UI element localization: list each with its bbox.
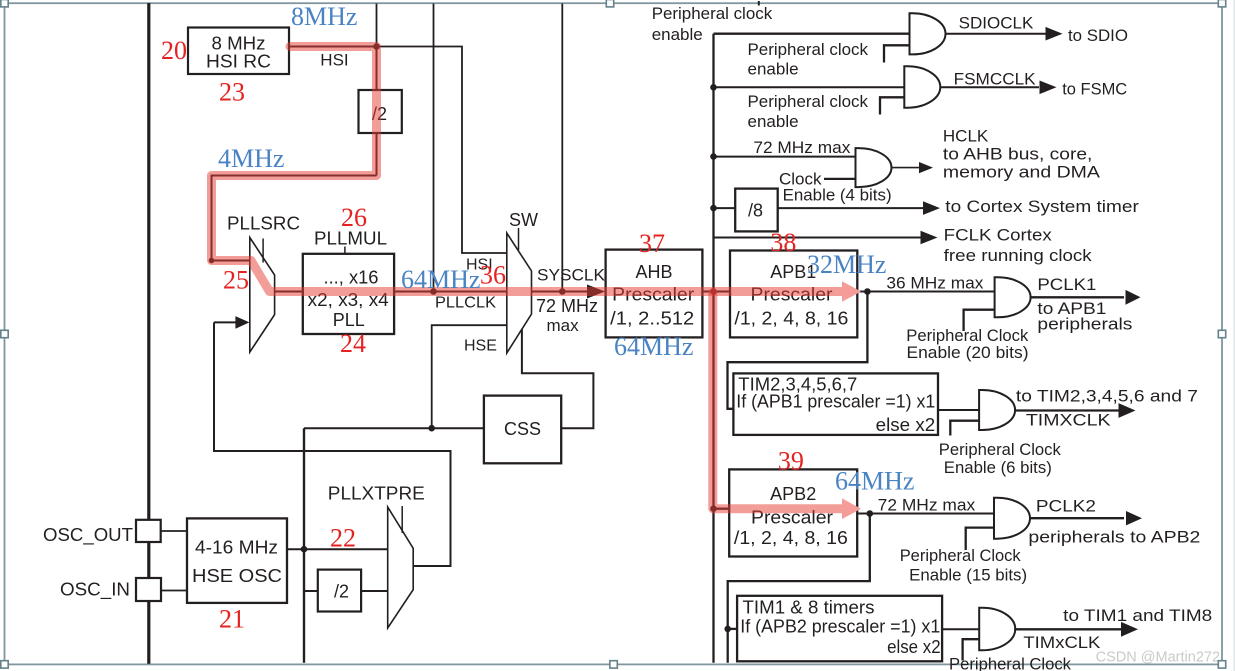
node: HCLK gate branch (710, 153, 717, 160)
svg-text:72 MHz: 72 MHz (536, 296, 598, 316)
svg-text:OSC_IN: OSC_IN (60, 580, 130, 601)
wire: cropped stub at top edge (758, 1, 760, 6)
label: PLLMUL with tick (344, 247, 346, 254)
block: 8 MHz HSI RC oscillator (188, 28, 289, 75)
wire: bus top branch to SDIO gate (714, 33, 910, 35)
wire: PLLXTPRE feed into PLLSRC mux with arrowhead (214, 321, 237, 323)
svg-text:23: 23 (219, 78, 245, 107)
svg-text:24: 24 (340, 329, 366, 358)
svg-text:Enable (20 bits): Enable (20 bits) (907, 343, 1029, 362)
wire: TIMXCLK output arrow (1014, 409, 1119, 411)
svg-text:TIM1 & 8 timers: TIM1 & 8 timers (743, 598, 875, 618)
svg-text:APB2: APB2 (770, 484, 816, 504)
highlight arrowhead into APB2 (842, 498, 861, 519)
svg-text:4-16 MHz: 4-16 MHz (195, 538, 278, 558)
node: /8 branch (710, 205, 717, 212)
enable stub into FSMC gate (880, 97, 904, 114)
wire: APB1 output to PCLK1 gate (857, 291, 994, 293)
svg-text:/8: /8 (748, 201, 763, 221)
wire: SW mux bottom to CSS (522, 329, 594, 428)
svg-text:PLLSRC: PLLSRC (227, 214, 300, 234)
svg-text:TIMxCLK: TIMxCLK (1023, 633, 1101, 652)
enable stub into PCLK2 gate (966, 528, 994, 550)
svg-text:8MHz: 8MHz (291, 2, 357, 31)
mux PLLSRC (250, 238, 275, 353)
svg-text:64MHz: 64MHz (835, 467, 914, 496)
gate: FSMC clock AND gate (904, 66, 940, 107)
enable stub into SDIO gate (884, 45, 910, 62)
wire: PLLCLK branch up to top edge (433, 4, 435, 292)
svg-text:TIMXCLK: TIMXCLK (1026, 411, 1111, 430)
svg-text:Enable (15 bits): Enable (15 bits) (909, 566, 1027, 585)
enable stub into TIM1 gate (963, 639, 980, 660)
svg-text:39: 39 (778, 447, 804, 476)
svg-text:to FSMC: to FSMC (1062, 80, 1127, 99)
node: FSMC branch (710, 84, 717, 91)
highlight: HCLK branch down to APB2 (713, 293, 843, 509)
svg-text:Peripheral Clock: Peripheral Clock (949, 655, 1071, 671)
svg-text:PLLXTPRE: PLLXTPRE (328, 484, 425, 504)
svg-text:else x2: else x2 (876, 415, 936, 435)
wire: FCLK Cortex (714, 237, 922, 239)
svg-text:Peripheral clock: Peripheral clock (748, 40, 869, 59)
wire: HSI to SW mux input (377, 47, 507, 254)
wire: FSMCCLK output (941, 86, 1040, 88)
wire: /8 to Cortex system timer (778, 207, 923, 209)
svg-text:36: 36 (480, 261, 506, 290)
svg-text:/1, 2..512: /1, 2..512 (610, 309, 694, 329)
wire: AHB to APB1 (702, 291, 730, 293)
svg-text:26: 26 (341, 203, 367, 232)
wire: HCLK output arrow (892, 167, 920, 169)
svg-text:max: max (547, 316, 580, 335)
wire: tap into /2 (304, 590, 318, 592)
svg-text:memory and DMA: memory and DMA (943, 163, 1101, 182)
gate: HCLK AND gate (856, 148, 892, 187)
svg-text:SYSCLK: SYSCLK (537, 266, 606, 285)
svg-text:PCLK1: PCLK1 (1037, 275, 1096, 294)
wire: stub from top edge to HSI junction (376, 4, 378, 47)
wire: TIM2 block to gate (938, 409, 979, 411)
wire: SDIOCLK output (945, 33, 1047, 35)
wire: HSI junction down through /2 divider (376, 47, 378, 176)
svg-text:FSMCCLK: FSMCCLK (954, 70, 1037, 89)
block: CSS clock security system (484, 396, 561, 464)
node: PLLCLK junction (430, 288, 437, 295)
svg-text:peripherals: peripherals (1037, 315, 1132, 334)
block: AHB Prescaler (606, 250, 703, 338)
block: PLL multiplier (303, 254, 394, 334)
wire: APB1 junction down to TIM2 block (728, 292, 868, 409)
svg-text:If (APB2 prescaler =1) x1: If (APB2 prescaler =1) x1 (740, 617, 940, 637)
arrow into AHB prescaler (587, 285, 605, 299)
svg-text:HSI RC: HSI RC (206, 52, 271, 72)
gate: PCLK1 AND gate (995, 277, 1031, 317)
svg-text:enable: enable (652, 25, 703, 44)
svg-text:FCLK Cortex: FCLK Cortex (944, 226, 1053, 245)
svg-text:/1, 2, 4, 8, 16: /1, 2, 4, 8, 16 (734, 528, 848, 548)
node: HCLK junction on bus (710, 288, 717, 295)
wire: PCLK2 output arrow (1029, 517, 1124, 519)
wire: TIMxCLK output arrow (1014, 628, 1121, 630)
wire: HSI/2 elbow to PLLSRC mux (212, 176, 377, 261)
svg-text:enable: enable (748, 60, 799, 79)
wire: HSE vertical rail down to bottom edge (303, 428, 305, 663)
svg-text:HSE: HSE (464, 338, 497, 355)
node: HSI junction (373, 43, 380, 50)
pin pad: OSC_OUT (136, 520, 161, 542)
wire: bus to FSMC gate (714, 86, 905, 88)
gate: TIMXCLK APB1 AND gate (979, 390, 1015, 430)
svg-text:SW: SW (509, 210, 538, 230)
svg-text:free running clock: free running clock (944, 246, 1093, 265)
wire: HCLK bus vertical (712, 34, 714, 663)
highlight: clock path HSI to PLL to SYSCLK to APB1 (212, 47, 844, 292)
wire: APB2 junction down to TIM1 block (728, 514, 870, 663)
svg-text:HSE OSC: HSE OSC (192, 566, 282, 586)
wire: HSE OSC output (287, 548, 388, 550)
block: APB2 Prescaler (729, 469, 857, 556)
wire: TIM1 block to gate (942, 628, 979, 630)
wire: APB2 output to PCLK2 gate (857, 513, 994, 515)
svg-text:22: 22 (330, 524, 356, 553)
divider /8 Cortex systick (735, 189, 778, 232)
gate: TIMxCLK APB2 AND gate (979, 608, 1015, 651)
enable stub into TIMX gate (950, 421, 979, 436)
svg-text:Peripheral Clock: Peripheral Clock (939, 440, 1061, 459)
wire: into TIM1 block (728, 628, 737, 630)
wire: PLLSRC mux to PLL (275, 291, 303, 293)
node: SYSCLK junction (559, 288, 566, 295)
wire: HSI output from HSI RC (289, 46, 377, 48)
svg-text:/2: /2 (334, 582, 349, 602)
wire: HSE up to SW mux input (432, 325, 507, 428)
svg-text:to Cortex System timer: to Cortex System timer (945, 197, 1139, 216)
svg-text:Peripheral clock: Peripheral clock (748, 92, 869, 111)
highlight arrowhead into APB1 (842, 281, 861, 302)
svg-text:..., x16: ..., x16 (324, 268, 379, 288)
svg-text:to TIM1 and TIM8: to TIM1 and TIM8 (1063, 606, 1212, 625)
wire: bus to HCLK gate, 72 MHz max (714, 156, 856, 158)
svg-text:Enable (6 bits): Enable (6 bits) (944, 458, 1052, 477)
wire: PCLK1 output arrow (1030, 296, 1124, 298)
node: APB2 corner on bus (710, 505, 717, 512)
gate: SDIO clock AND gate (910, 13, 946, 54)
wire: SYSCLK branch up to top edge (561, 4, 563, 292)
enable stub into PCLK1 gate (964, 310, 995, 331)
node: PCLK2 junction (867, 510, 874, 517)
svg-text:HCLK: HCLK (943, 127, 989, 146)
svg-text:25: 25 (223, 266, 249, 295)
node: PCLK1 junction (864, 288, 871, 295)
svg-text:/1, 2, 4, 8, 16: /1, 2, 4, 8, 16 (734, 309, 848, 329)
svg-text:Enable (4 bits): Enable (4 bits) (783, 186, 892, 205)
svg-text:20: 20 (161, 36, 187, 65)
gate: PCLK2 AND gate (994, 498, 1030, 539)
svg-text:72 MHz max: 72 MHz max (878, 496, 976, 515)
node: TIM1 input junction (724, 626, 731, 633)
svg-text:HSI: HSI (320, 51, 348, 70)
mux PLLXTPRE (388, 507, 414, 628)
wire: /2 to PLLXTPRE mux (361, 590, 388, 592)
wire: CSS to HSE line (304, 427, 484, 429)
svg-text:PLLCLK: PLLCLK (435, 295, 496, 312)
svg-text:to AHB bus, core,: to AHB bus, core, (943, 145, 1093, 164)
svg-text:AHB: AHB (635, 262, 672, 282)
wire: PLLCLK from PLL to SW mux (394, 291, 507, 293)
svg-text:PCLK2: PCLK2 (1036, 497, 1096, 516)
node: corner dot at PLLSRC input (209, 258, 215, 264)
wire: bus to /8 (714, 207, 736, 209)
divider /2 on HSI path (359, 90, 402, 133)
svg-text:CSS: CSS (504, 419, 541, 439)
svg-text:64MHz: 64MHz (614, 332, 693, 361)
block: APB1 Prescaler (730, 251, 857, 338)
label: PLLXTPRE with tick (401, 506, 403, 533)
pin pad: OSC_IN (136, 578, 161, 601)
node: junction on HSE output (301, 546, 308, 553)
wire: bus corner into APB2 (714, 508, 730, 510)
svg-text:enable: enable (748, 112, 799, 131)
label: Clock with stub (824, 178, 856, 180)
svg-text:32MHz: 32MHz (807, 250, 886, 279)
mux SW system clock switch (507, 233, 532, 353)
svg-text:64MHz: 64MHz (401, 265, 480, 294)
svg-text:38: 38 (770, 228, 796, 257)
node: junction HSE/CSS (428, 425, 435, 432)
wire: SYSCLK from SW mux to AHB prescaler (532, 291, 588, 293)
wire: left vertical rail (147, 3, 150, 664)
svg-text:36 MHz max: 36 MHz max (886, 274, 983, 293)
svg-text:to SDIO: to SDIO (1068, 26, 1128, 45)
wire: PLLXTPRE frame loop (214, 322, 451, 566)
svg-text:OSC_OUT: OSC_OUT (43, 525, 133, 546)
label: SW with tick (518, 228, 520, 250)
svg-text:21: 21 (219, 605, 245, 634)
block: TIM1 and 8 multiplier rule (737, 596, 942, 662)
label: PLLSRC with tick (262, 239, 264, 263)
svg-text:8 MHz: 8 MHz (212, 34, 266, 54)
divider /2 on HSE path (318, 570, 361, 612)
block: TIM2-7 multiplier rule (733, 373, 938, 435)
svg-text:to TIM2,3,4,5,6 and 7: to TIM2,3,4,5,6 and 7 (1016, 387, 1198, 406)
svg-text:CSDN @Martin272: CSDN @Martin272 (1096, 649, 1221, 666)
svg-text:peripherals to APB2: peripherals to APB2 (1028, 528, 1200, 547)
svg-text:PLL: PLL (333, 310, 365, 330)
svg-text:72 MHz max: 72 MHz max (753, 138, 850, 157)
svg-text:else x2: else x2 (887, 637, 941, 657)
svg-text:SDIOCLK: SDIOCLK (959, 14, 1034, 33)
svg-text:Peripheral clock: Peripheral clock (652, 4, 773, 23)
svg-text:Peripheral Clock: Peripheral Clock (900, 546, 1021, 565)
block: 4-16 MHz HSE OSC (187, 518, 287, 603)
svg-text:4MHz: 4MHz (218, 144, 284, 173)
svg-text:If (APB1 prescaler =1) x1: If (APB1 prescaler =1) x1 (736, 392, 935, 412)
svg-text:37: 37 (639, 229, 665, 258)
